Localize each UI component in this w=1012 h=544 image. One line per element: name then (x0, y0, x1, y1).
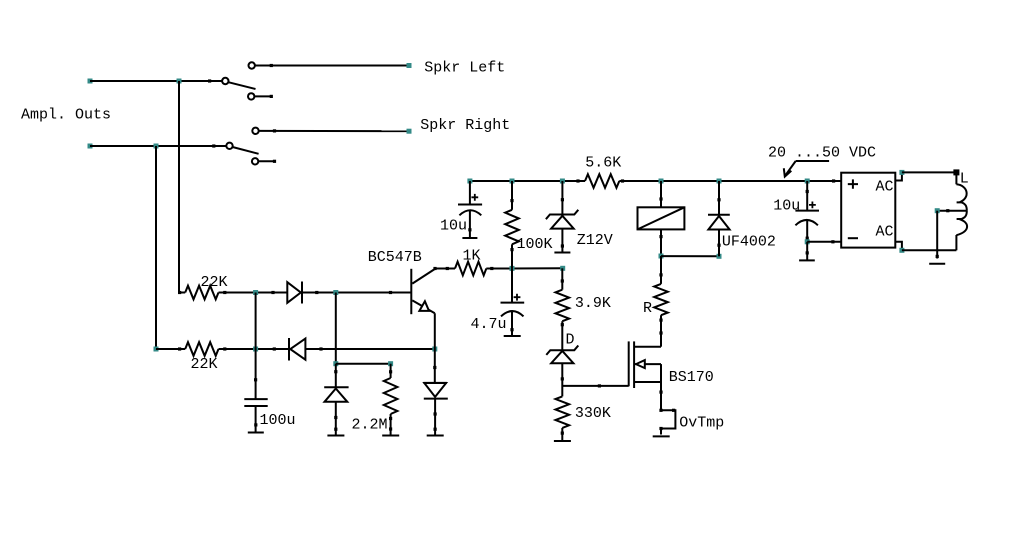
pin dot R4 left (446, 267, 449, 270)
wire 100u column (255, 293, 257, 400)
wire ampl right out (90, 145, 226, 147)
wire UF4002 bottom (718, 230, 720, 257)
wire relay junction to R (660, 256, 662, 284)
wire gate row (562, 385, 628, 387)
svg-text:3.9K: 3.9K (575, 295, 611, 312)
ground tick 2.2M (382, 435, 399, 437)
diode D4 cathode bar (424, 398, 448, 400)
pin dot rail at rectifier (832, 179, 835, 182)
mosfet Q2 source stub (634, 381, 661, 383)
pin dot R bottom (659, 319, 662, 322)
resistor R9 330K (556, 396, 570, 427)
junction relay / catch-diode (659, 254, 664, 259)
wire D3 bottom (335, 402, 337, 435)
svg-text:100u: 100u (260, 412, 296, 429)
pin dot zener bottom (561, 377, 564, 380)
node 2.2M top (388, 361, 393, 366)
wire 2.2M bottom (390, 414, 392, 435)
svg-text:AC: AC (876, 179, 894, 196)
inductor winding upper scallop (956, 184, 966, 210)
pin dot switch S1 pole (208, 79, 211, 82)
switch S1 lever (228, 82, 255, 89)
mosfet Q2 drain stub (634, 346, 661, 348)
node Ampl-Out-Left terminal (88, 79, 93, 84)
diode D1 triangle (287, 282, 301, 303)
wire 100K bottom (511, 244, 513, 268)
switch S1 pivot (222, 78, 228, 84)
wire collector to R4 (435, 268, 455, 270)
node AC top pin (899, 170, 904, 175)
switch S1 throw bottom contact (248, 93, 254, 99)
diode D2 triangle (290, 339, 305, 360)
node base-bottom junction (333, 361, 338, 366)
wire R to drain (660, 315, 662, 347)
resistor R2 22K (185, 342, 218, 356)
resistor R7 R (654, 284, 668, 315)
capacitor C2 4.7u plate (501, 302, 525, 304)
pin dot 330K bottom (561, 432, 564, 435)
svg-text:20 ...50 VDC: 20 ...50 VDC (768, 145, 876, 162)
wire R2 to D2 (219, 348, 290, 350)
resistor R1 22K (185, 286, 218, 300)
pin dot collector (433, 267, 436, 270)
leader arrowhead (784, 168, 792, 176)
pin dot switch S2 pole (212, 144, 215, 147)
ground tick 10u-left (462, 237, 477, 239)
junction base row / D3 column (333, 290, 338, 295)
pin dot 100K bottom (510, 248, 513, 251)
wire 10u-right gnd stub (806, 242, 808, 260)
svg-text:OvTmp: OvTmp (679, 414, 724, 431)
node Spkr Left end (407, 63, 412, 68)
capacitor C4 10u plate (795, 210, 819, 212)
wire 100K top (511, 181, 513, 210)
wire Spkr Left (255, 65, 409, 67)
svg-text:22K: 22K (191, 356, 218, 373)
svg-text:Ampl. Outs: Ampl. Outs (21, 106, 111, 123)
wire emitter vertical (434, 313, 436, 383)
node rail / UF4002 (717, 179, 722, 184)
diode D3 cathode bar (324, 386, 348, 388)
pin dot R top (659, 273, 662, 276)
switch S2 pivot (226, 143, 232, 149)
wire 10u-left top (469, 181, 471, 205)
transistor Q1 emitter lead (412, 300, 435, 313)
pin dot 10u-left (468, 228, 471, 231)
junction base-row / 100u column (253, 290, 258, 295)
junction 4.7u column (510, 266, 515, 271)
capacitor C4 10u plus (809, 202, 816, 209)
ground tick 330K (554, 440, 571, 442)
ground tick D4 (427, 435, 444, 437)
ground tick Z12V (554, 252, 570, 254)
wire source down (660, 382, 662, 410)
node rail / Z12V (560, 179, 565, 184)
wire rail left (470, 180, 585, 182)
diode D3 triangle (325, 389, 348, 402)
wire relay bottom (660, 229, 662, 256)
pin dot S1 bottom stub (270, 95, 273, 98)
svg-text:D: D (566, 332, 575, 349)
node rail / 10u-right (805, 179, 810, 184)
wire UF4002 top (718, 181, 720, 215)
pin dot D3 bottom (334, 416, 337, 419)
rectifier U1 box (841, 173, 895, 248)
node UF4002 bottom (717, 254, 722, 259)
pin dot R1 left (178, 291, 181, 294)
pin dot D1 anode wire (271, 291, 274, 294)
svg-text:100K: 100K (517, 236, 553, 253)
svg-text:2.2M: 2.2M (352, 417, 388, 434)
wire winding top lead (955, 172, 957, 184)
wire tap to ground (936, 211, 938, 259)
pin dot S2 bottom stub (273, 160, 276, 163)
pin dot R5 left (576, 179, 579, 182)
wire AC pin bottom stub (895, 242, 902, 251)
capacitor C2 4.7u curved plate (501, 311, 524, 316)
capacitor C4 10u curved plate (795, 220, 818, 225)
wire S2 bottom stub (259, 160, 276, 162)
diode D2 cathode bar (288, 338, 290, 361)
node Ampl-Out-Right terminal (88, 144, 93, 149)
label - terminal (848, 237, 858, 239)
pin dot D4 bottom (434, 412, 437, 415)
zener Z1 triangle (551, 216, 574, 229)
pin dot 3.9K top (561, 279, 564, 282)
pin dot gate row (598, 384, 601, 387)
wire 3.9K top (561, 268, 563, 289)
pin dot D2 cathode wire (273, 347, 276, 350)
wire zener to gate junction (561, 363, 563, 396)
pin dot OvTmp pin2b (659, 427, 662, 430)
pin dot 2.2M mid (389, 417, 392, 420)
junction bottom wire / vertical (154, 144, 159, 149)
wire D2 to emitter node (305, 348, 434, 350)
wire OvTmp gnd stub (660, 429, 662, 435)
pin dot 10u-right gnd (806, 251, 809, 254)
capacitor C3 10u plus (471, 194, 478, 201)
pin dot below C1 (254, 423, 257, 426)
node 3.9K top (560, 266, 565, 271)
wire 4.7u bottom (511, 312, 513, 336)
pin dot R4 right (490, 267, 493, 270)
node rail / 100K (510, 179, 515, 184)
pin dot D4 gnd (434, 428, 437, 431)
transistor Q1 base bar (410, 269, 412, 314)
svg-text:22K: 22K (201, 274, 228, 291)
switch S2 throw top contact (252, 128, 258, 134)
node rail / 10u-left (467, 179, 472, 184)
diode D5 UF4002 triangle (708, 216, 729, 230)
pin dot R2 right (223, 347, 226, 350)
pin dot relay top (659, 197, 662, 200)
pin dot center tap (946, 209, 949, 212)
pin dot 100K top (510, 199, 513, 202)
wire below C1 (255, 406, 257, 432)
leader line diagonal (785, 161, 796, 176)
svg-text:Spkr Left: Spkr Left (424, 59, 505, 76)
pin dot Spkr Left wire (270, 64, 273, 67)
ground tick C1 (248, 432, 264, 434)
pin dot D1 cathode wire (315, 291, 318, 294)
leader line horizontal (796, 160, 829, 162)
wire minus to rectifier (807, 241, 841, 243)
svg-text:4.7u: 4.7u (471, 316, 507, 333)
ground tick D3 (327, 435, 344, 437)
resistor R3 2.2M (384, 378, 398, 414)
wire base drop (335, 293, 337, 364)
svg-text:R: R (643, 300, 652, 317)
pin dot 10u-right top (806, 190, 809, 193)
capacitor C3 10u plate (458, 204, 482, 206)
switch S2 throw bottom contact (252, 158, 258, 164)
pin dot 2.2M top (389, 370, 392, 373)
pin dot above C1 (254, 378, 257, 381)
wire into R2 (156, 348, 185, 350)
corner teal bottom 22K (154, 347, 159, 352)
diode D5 UF4002 cathode bar (708, 214, 730, 216)
svg-text:BC547B: BC547B (368, 249, 422, 266)
wire vertical from left-channel junction (178, 81, 180, 293)
pin dot R5 right (621, 179, 624, 182)
svg-text:5.6K: 5.6K (585, 154, 621, 171)
diode D1 cathode bar (301, 282, 303, 304)
wire vertical from right-channel junction (155, 146, 157, 349)
svg-text:BS170: BS170 (669, 369, 714, 386)
mosfet Q2 body-source vertical (660, 364, 662, 382)
zener D6 bar with tails (546, 346, 578, 355)
inductor winding lower scallop (956, 211, 967, 236)
resistor R6 100K (505, 210, 519, 245)
node AC bottom pin (899, 248, 904, 253)
pin dot emitter wire (433, 366, 436, 369)
switch S2 lever (233, 147, 259, 154)
switch S1 throw top contact (249, 62, 255, 68)
pin dot 3.9K bottom (561, 323, 564, 326)
wire AC top to transformer (902, 171, 957, 173)
zener Z1 bar with tails (546, 210, 578, 219)
svg-text:10u: 10u (773, 198, 800, 215)
capacitor C3 10u curved plate (459, 210, 481, 215)
wire 10u-right bottom (806, 221, 808, 242)
svg-text:Z12V: Z12V (577, 232, 613, 249)
pin dot 10u-right bottom (806, 237, 809, 240)
pin dot R1 right (223, 291, 226, 294)
svg-text:UF4002: UF4002 (722, 234, 776, 251)
wire 2.2M top (390, 364, 392, 378)
node center tap (935, 208, 940, 213)
svg-text:Spkr Right: Spkr Right (420, 117, 510, 134)
wire 330K bottom (561, 428, 563, 441)
svg-text:10u: 10u (440, 217, 467, 234)
pin dot Z12V bottom (561, 244, 564, 247)
connector J1 OvTmp bracket (661, 410, 675, 428)
wire winding bottom lead (955, 235, 957, 250)
pin dot OvTmp pin1 (659, 409, 662, 412)
wire 10u-right top (806, 181, 808, 211)
relay K1 diagonal (638, 207, 685, 229)
transistor Q1 collector lead (412, 269, 435, 284)
pin dot source (659, 391, 662, 394)
diode D4 anode bar (423, 382, 447, 384)
resistor R8 3.9K (556, 290, 570, 321)
junction top wire / vertical (177, 79, 182, 84)
wire R1 to D1 (219, 292, 288, 294)
wire relay top (660, 181, 662, 207)
wire rail right (619, 180, 841, 182)
ground tick 4.7u (504, 335, 521, 337)
pin dot UF4002 top (717, 198, 720, 201)
junction emitter column (432, 347, 437, 352)
relay K1 coil box (638, 207, 685, 229)
pin dot relay bottom (659, 235, 662, 238)
wire relay to UF4002 (661, 255, 719, 257)
wire base-bottom to 2.2M (336, 363, 391, 365)
pin dot base wire (389, 291, 392, 294)
node rail / relay (659, 179, 664, 184)
wire center tap (937, 210, 967, 212)
pin dot OvTmp pin2 (672, 409, 675, 412)
wire AC bottom to transformer (902, 249, 957, 251)
label + terminal (848, 179, 858, 188)
pin dot UF4002 bottom (717, 244, 720, 247)
wire S1 bottom stub (255, 95, 272, 97)
zener D6 triangle (551, 351, 573, 363)
resistor R5 5.6K (585, 174, 619, 188)
pin dot D3 gnd (334, 428, 337, 431)
pin dot 4.7u (510, 328, 513, 331)
capacitor C1 100u top plate (244, 398, 267, 400)
pin dot D3 top (334, 370, 337, 373)
wire D3 top (335, 364, 337, 388)
wire Z12V bottom (561, 229, 563, 252)
pin dot drain (659, 331, 662, 334)
ground tick 10u-right (799, 259, 815, 261)
transistor Q1 emitter arrow (419, 301, 429, 311)
mosfet Q2 body arrow (636, 360, 645, 368)
capacitor C1 100u bottom plate (244, 405, 267, 407)
junction emitter-row / 100u column (253, 347, 258, 352)
wire 10u-left bottom (469, 211, 471, 238)
wire D4 bottom (434, 399, 436, 435)
wire 4.7u top (511, 268, 513, 302)
ground tick transformer (929, 263, 945, 265)
transformer L terminal (953, 169, 959, 175)
wire Spkr Right (259, 130, 409, 132)
wire Z12V top (561, 181, 563, 216)
wire into R1 (179, 292, 185, 294)
pin dot R2 left (178, 347, 181, 350)
pin dot Spkr Right wire (273, 129, 276, 132)
mosfet Q2 channel bar (633, 341, 635, 388)
svg-text:1K: 1K (463, 248, 481, 265)
wire AC pin top stub (895, 172, 902, 180)
svg-text:AC: AC (876, 224, 894, 241)
pin dot D2 anode wire (319, 347, 322, 350)
capacitor C2 4.7u plus (514, 294, 521, 301)
junction 10u-right / minus wire (805, 239, 810, 244)
svg-text:330K: 330K (575, 405, 611, 422)
wire 3.9K to zener D (561, 321, 563, 350)
wire ampl left out (90, 80, 222, 82)
pin dot 2.2M gnd (389, 427, 392, 430)
node Spkr Right end (407, 129, 412, 134)
pin dot minus wire (831, 240, 834, 243)
pin dot Z12V top (561, 198, 564, 201)
wire R4 to node (486, 267, 562, 269)
wire D1 to base (302, 292, 411, 294)
mosfet Q2 body stub (634, 363, 661, 365)
resistor R4 1K (455, 262, 486, 276)
diode D4 triangle (424, 383, 446, 397)
pin dot tap gnd (936, 255, 939, 258)
mosfet Q2 gate bar (628, 341, 630, 386)
ground tick OvTmp (653, 435, 670, 437)
